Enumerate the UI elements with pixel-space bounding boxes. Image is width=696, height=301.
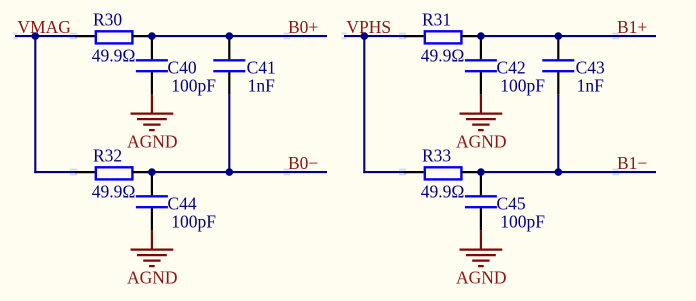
wire vertical from VMAG junction to lower rail	[34, 36, 36, 173]
resistor R31 body	[425, 31, 462, 43]
power port AGND bar 3	[472, 259, 489, 261]
junction top rail / C43	[555, 32, 563, 40]
junction at VMAG input	[32, 32, 40, 40]
pin mask marks left of R33	[399, 169, 407, 176]
junction at VPHS input	[361, 32, 369, 40]
capacitor C43 bottom pin	[557, 72, 559, 94]
svg-text:C45: C45	[497, 194, 526, 214]
anchor mask marks at B1&#8722;	[613, 169, 620, 176]
resistor R33 body	[425, 167, 462, 179]
power port AGND bar 3	[472, 123, 489, 125]
capacitor C45 top pin	[480, 172, 482, 195]
power port AGND bar 2	[466, 254, 496, 256]
svg-text:B0+: B0+	[288, 17, 318, 37]
svg-text:100pF: 100pF	[171, 212, 216, 232]
resistor R31 left pin	[404, 35, 424, 37]
capacitor C43 top pin	[557, 36, 559, 59]
wire VMAG top rail left segment	[15, 35, 76, 37]
svg-text:100pF: 100pF	[500, 212, 545, 232]
capacitor C41 plates	[213, 60, 245, 71]
resistor R31 right pin	[461, 35, 481, 37]
svg-text:R30: R30	[93, 10, 122, 30]
junction lower rail / C45	[477, 168, 485, 176]
svg-text:AGND: AGND	[127, 268, 178, 288]
capacitor C44 plates	[136, 196, 168, 207]
resistor R32 right pin	[132, 171, 152, 173]
svg-text:1nF: 1nF	[577, 76, 605, 96]
svg-text:B1−: B1−	[617, 153, 647, 173]
power port AGND bar 3	[143, 123, 160, 125]
svg-text:100pF: 100pF	[500, 76, 545, 96]
capacitor C45 plates	[465, 196, 497, 207]
junction top rail / C40	[148, 32, 156, 40]
power port AGND stem	[151, 94, 153, 113]
svg-text:VMAG: VMAG	[17, 17, 71, 37]
svg-text:C41: C41	[247, 58, 276, 78]
resistor R30 right pin	[132, 35, 152, 37]
svg-text:R32: R32	[93, 146, 122, 166]
resistor R33 right pin	[461, 171, 481, 173]
svg-text:AGND: AGND	[456, 132, 507, 152]
wire end mask marks at VPHS	[342, 33, 347, 40]
power port AGND stem	[480, 230, 482, 249]
anchor mask marks at B0&#8722;	[284, 169, 291, 176]
power port AGND bar 4	[149, 129, 155, 131]
capacitor C42 plates	[465, 60, 497, 71]
capacitor C40 plates	[136, 60, 168, 71]
power port AGND bar 1	[460, 248, 503, 250]
wire B1&#8722; lower rail right segment	[481, 171, 656, 173]
resistor R30 left pin	[75, 35, 95, 37]
junction lower rail / C44	[148, 168, 156, 176]
power port AGND bar 2	[466, 118, 496, 120]
pin mask marks left of R31	[399, 33, 407, 40]
power port AGND bar 1	[131, 112, 174, 114]
junction lower rail / C41	[226, 168, 234, 176]
capacitor C41 bottom pin	[228, 72, 230, 94]
svg-text:49.9Ω: 49.9Ω	[92, 45, 136, 65]
power port AGND bar 4	[478, 265, 484, 267]
wire B0&#8722; lower rail left segment	[34, 171, 76, 173]
capacitor C41 top pin	[228, 36, 230, 59]
wire VPHS top rail right segment	[481, 35, 656, 37]
wire from C41 down to lower rail	[228, 94, 230, 172]
svg-text:1nF: 1nF	[248, 76, 276, 96]
resistor R30 body	[96, 31, 133, 43]
wire from C43 down to lower rail	[557, 94, 559, 172]
svg-text:49.9Ω: 49.9Ω	[92, 181, 136, 201]
wire end mask marks at VMAG	[13, 33, 18, 40]
junction top rail / C42	[477, 32, 485, 40]
capacitor C40 top pin	[151, 36, 153, 59]
svg-text:R33: R33	[422, 146, 451, 166]
pin mask marks left of R30	[70, 33, 78, 40]
wire VPHS top rail left segment	[344, 35, 405, 37]
power port AGND bar 2	[137, 254, 167, 256]
wire vertical from VPHS junction to lower rail	[363, 36, 365, 173]
svg-text:VPHS: VPHS	[346, 17, 391, 37]
anchor mask marks at B0+	[284, 33, 291, 40]
resistor R33 left pin	[404, 171, 424, 173]
svg-text:C43: C43	[576, 58, 605, 78]
capacitor C42 bottom pin	[480, 72, 482, 94]
svg-text:49.9Ω: 49.9Ω	[421, 181, 465, 201]
svg-text:B0−: B0−	[288, 153, 318, 173]
wire B1&#8722; lower rail left segment	[363, 171, 405, 173]
svg-text:B1+: B1+	[617, 17, 647, 37]
svg-text:AGND: AGND	[127, 132, 178, 152]
power port AGND bar 4	[478, 129, 484, 131]
power port AGND stem	[151, 230, 153, 249]
svg-text:100pF: 100pF	[171, 76, 216, 96]
power port AGND bar 3	[143, 259, 160, 261]
capacitor C45 bottom pin	[480, 208, 482, 230]
capacitor C43 plates	[542, 60, 574, 71]
capacitor C40 bottom pin	[151, 72, 153, 94]
power port AGND bar 1	[460, 112, 503, 114]
svg-text:R31: R31	[422, 10, 451, 30]
resistor R32 left pin	[75, 171, 95, 173]
power port AGND bar 2	[137, 118, 167, 120]
power port AGND bar 1	[131, 248, 174, 250]
wire VMAG top rail right segment	[152, 35, 327, 37]
svg-text:49.9Ω: 49.9Ω	[421, 45, 465, 65]
resistor R32 body	[96, 167, 133, 179]
power port AGND stem	[480, 94, 482, 113]
capacitor C42 top pin	[480, 36, 482, 59]
junction top rail / C41	[226, 32, 234, 40]
svg-text:C40: C40	[168, 58, 197, 78]
svg-text:C44: C44	[168, 194, 197, 214]
capacitor C44 top pin	[151, 172, 153, 195]
pin mask marks left of R32	[70, 169, 78, 176]
anchor mask marks at B1+	[613, 33, 620, 40]
junction lower rail / C43	[555, 168, 563, 176]
svg-text:AGND: AGND	[456, 268, 507, 288]
svg-text:C42: C42	[497, 58, 526, 78]
wire B0&#8722; lower rail right segment	[152, 171, 327, 173]
power port AGND bar 4	[149, 265, 155, 267]
capacitor C44 bottom pin	[151, 208, 153, 230]
